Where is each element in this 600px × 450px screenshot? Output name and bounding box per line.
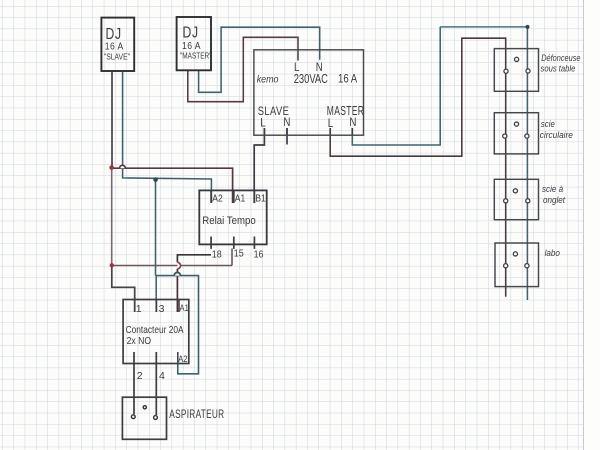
svg-text:Contacteur 20A: Contacteur 20A (126, 324, 185, 335)
svg-text:scie: scie (541, 119, 555, 130)
svg-text:labo: labo (545, 248, 561, 259)
svg-text:2x NO: 2x NO (127, 336, 152, 348)
svg-text:16: 16 (254, 249, 264, 261)
svg-text:L: L (260, 117, 265, 130)
svg-text:N: N (283, 116, 290, 129)
svg-text:circulaire: circulaire (540, 129, 573, 139)
svg-text:15: 15 (234, 248, 244, 260)
svg-text:L: L (328, 117, 333, 130)
svg-text:scie à: scie à (542, 184, 563, 195)
svg-text:ASPIRATEUR: ASPIRATEUR (169, 409, 224, 422)
svg-text:kemo: kemo (257, 74, 279, 86)
svg-text:230VAC: 230VAC (294, 73, 328, 87)
svg-text:4: 4 (159, 370, 165, 382)
svg-text:A2: A2 (178, 353, 187, 364)
svg-text:onglet: onglet (543, 194, 566, 205)
svg-text:A2: A2 (212, 193, 222, 204)
svg-text:sous table: sous table (541, 63, 576, 74)
svg-text:Relai Tempo: Relai Tempo (202, 214, 256, 227)
svg-text:18: 18 (212, 249, 222, 261)
svg-text:3: 3 (159, 303, 165, 315)
svg-text:16 A: 16 A (338, 72, 358, 85)
svg-text:N: N (349, 116, 356, 129)
svg-text:1: 1 (136, 303, 142, 315)
svg-text:"SLAVE": "SLAVE" (104, 52, 130, 62)
svg-text:B1: B1 (255, 193, 265, 204)
svg-text:A1: A1 (180, 302, 189, 313)
svg-text:A1: A1 (235, 193, 245, 204)
svg-text:"MASTER": "MASTER" (180, 51, 212, 61)
svg-text:2: 2 (137, 370, 143, 382)
